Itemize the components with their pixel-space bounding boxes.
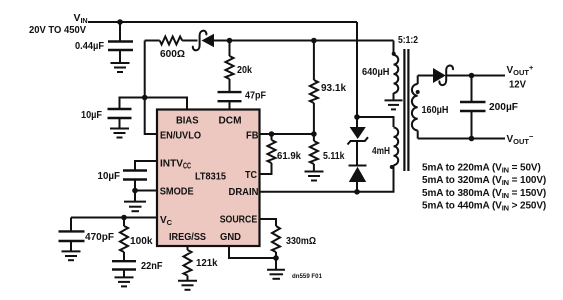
zener D2 (clamp) [348,117,369,166]
svg-text:VOUT+: VOUT+ [507,63,535,77]
wire secondary bottom [418,138,505,140]
resistor R8 121k [184,246,192,281]
node junction dot primary top [354,114,360,120]
svg-text:5mA to 440mA (VIN > 250V): 5mA to 440mA (VIN > 250V) [422,201,546,213]
svg-text:12V: 12V [509,79,526,91]
node junction dot SMODE/C4 [132,188,138,194]
ground under C5 [62,251,81,260]
svg-text:5mA to 220mA (VIN = 50V): 5mA to 220mA (VIN = 50V) [422,163,541,175]
ground under R8 [178,281,197,290]
svg-text:470pF: 470pF [85,231,115,243]
svg-text:0.44µF: 0.44µF [75,40,105,52]
svg-text:160µH: 160µH [422,104,449,116]
svg-text:10µF: 10µF [81,109,102,121]
wire INTVCC [135,161,157,171]
node junction dot VOUT+/200uF [469,73,475,79]
node junction dot D1/20k [227,38,233,44]
svg-text:5mA to 380mA (VIN = 150V): 5mA to 380mA (VIN = 150V) [422,188,546,200]
diode D1 Schottky (bias rectifier) [193,31,214,51]
wire VIN rail [88,21,357,23]
node junction dot VC/100k [121,215,127,221]
svg-text:LT8315: LT8315 [195,171,226,183]
svg-text:20V TO 450V: 20V TO 450V [29,24,86,36]
resistor R2 20k [226,41,234,93]
svg-text:121k: 121k [196,257,218,269]
svg-text:10µF: 10µF [98,170,121,182]
capacitor C5 470pF [59,218,85,252]
wire to primary winding [357,117,394,127]
wire secondary top [418,75,505,77]
svg-text:100k: 100k [130,235,153,247]
capacitor C1 0.44uF [108,22,133,63]
svg-text:FB: FB [246,130,259,142]
wire EN/UVLO riser [145,41,157,135]
svg-text:BIAS: BIAS [176,115,199,127]
node junction dot VOUT-/200uF [469,136,475,142]
node junction dot FB/61.9k [269,131,275,137]
ground under C2 [110,129,129,138]
capacitor C6 22nF [112,261,136,277]
transformer T1 bias winding 640uH [394,41,399,101]
node junction dot SOURCE/GND [273,255,279,261]
svg-text:22nF: 22nF [141,260,163,272]
ground under C1 [111,63,130,72]
svg-text:IREG/SS: IREG/SS [169,231,206,243]
svg-text:61.9k: 61.9k [277,150,301,162]
svg-text:EN/UVLO: EN/UVLO [160,130,201,142]
wire VC [71,217,157,219]
wire VIN drop to clamp stack [356,22,358,117]
svg-text:200µF: 200µF [489,101,519,113]
svg-text:DRAIN: DRAIN [229,186,259,198]
svg-text:SOURCE: SOURCE [220,214,258,226]
transformer T1 secondary winding 160uH [412,76,418,139]
diode D4 Schottky (output) [433,65,453,85]
svg-text:640µH: 640µH [362,66,390,78]
svg-text:600Ω: 600Ω [160,48,185,60]
svg-text:GND: GND [220,231,241,243]
op-amp U1 LT8315 body [157,110,260,247]
capacitor C4 10uF (INTVCC) [123,171,147,191]
svg-text:47pF: 47pF [245,90,266,102]
phase dot bias winding [392,52,396,56]
phase dot secondary winding [416,90,420,94]
svg-text:20k: 20k [237,64,252,76]
wire clamp line (bias rectifier rail) [145,40,394,42]
svg-text:5.11k: 5.11k [323,150,345,162]
diode D3 (clamp) [349,166,367,193]
resistor R4 100k [120,218,128,262]
svg-text:93.1k: 93.1k [321,82,346,94]
svg-text:TC: TC [245,169,257,181]
svg-text:SMODE: SMODE [160,186,194,198]
svg-text:5mA to 320mA (VIN = 100V): 5mA to 320mA (VIN = 100V) [422,175,546,187]
ground under SMODE [124,191,146,212]
capacitor C3 47pF [218,92,242,110]
wire SOURCE [260,219,277,226]
svg-text:330mΩ: 330mΩ [286,235,316,247]
ground under R6 [305,172,324,181]
wire FB [260,133,314,135]
resistor R1 600ohm [160,37,183,45]
svg-text:dn559 F01: dn559 F01 [292,273,322,280]
resistor R6 5.11k [310,134,318,172]
node junction dot BIAS node [142,95,148,101]
svg-text:VOUT−: VOUT− [507,132,535,146]
svg-text:DCM: DCM [219,115,242,127]
node junction dot 93.1k top [311,38,317,44]
resistor R5 61.9k [260,134,276,174]
transformer T1 primary winding 4mH [394,128,399,166]
node junction dot FB/5.11k [311,131,317,137]
wire DRAIN rail [260,165,394,192]
resistor R3 93.1k [310,41,318,135]
phase dot primary winding [390,165,394,169]
node junction dot DRAIN/clamp [354,189,360,195]
ground under R7 [267,270,285,279]
transformer T1 core [404,49,408,171]
svg-text:4mH: 4mH [372,145,390,157]
svg-text:5:1:2: 5:1:2 [398,34,418,46]
capacitor C7 200uF [460,76,486,139]
resistor R7 330mohm [272,226,280,270]
wire SMODE [135,190,157,192]
ground under bias winding [385,100,403,109]
capacitor C2 10uF (BIAS) [108,98,145,129]
ground under C6 [115,277,134,286]
node junction dot VIN/C1 [117,19,123,25]
wire BIAS branch [145,98,187,110]
wire GND pin [229,246,276,258]
